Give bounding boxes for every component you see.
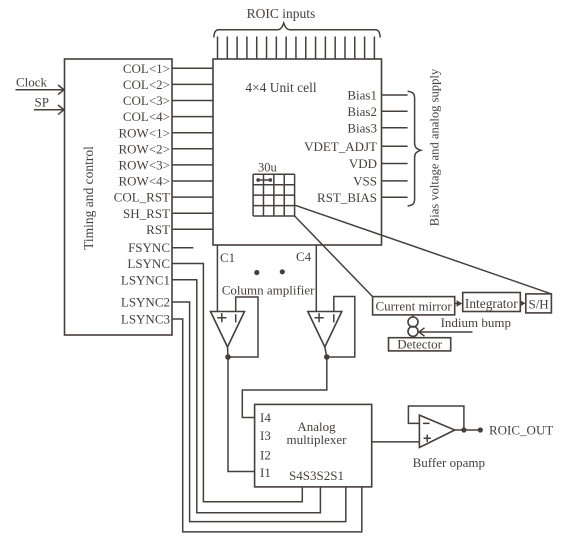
wire arrow indium bump: [419, 328, 473, 336]
svg-text:Buffer opamp: Buffer opamp: [413, 455, 485, 470]
svg-text:COL<4>: COL<4>: [123, 109, 170, 124]
svg-text:FSYNC: FSYNC: [128, 240, 170, 255]
node A2 output junction: [324, 354, 330, 360]
svg-text:Integrator: Integrator: [465, 296, 518, 311]
node buffer output junction: [461, 427, 466, 432]
wire VDET_ADJT: [382, 145, 408, 147]
wire FSYNC stub: [172, 247, 193, 249]
wire COL1: [172, 67, 213, 69]
wire arrow to integrator: [455, 300, 463, 306]
wire Bias2: [382, 110, 408, 112]
wire buffer output: [455, 429, 479, 431]
svg-text:Timing and control: Timing and control: [81, 146, 96, 250]
op-amp U2 buffer: [419, 415, 454, 447]
wire VDD: [382, 163, 408, 165]
svg-text:ROW<2>: ROW<2>: [119, 141, 171, 156]
svg-text:Indium bump: Indium bump: [441, 315, 511, 330]
svg-text:COL<1>: COL<1>: [123, 61, 170, 76]
svg-text:C4: C4: [296, 249, 312, 264]
svg-text:I3: I3: [260, 428, 271, 443]
wire ROW1: [172, 132, 213, 134]
svg-text:C1: C1: [220, 250, 235, 265]
sample and hold box: [526, 294, 552, 313]
svg-text:LSYNC3: LSYNC3: [121, 312, 170, 327]
svg-text:I2: I2: [260, 447, 271, 462]
wire RST: [172, 228, 213, 230]
wire arrow to S/H: [520, 300, 525, 306]
svg-text:SP: SP: [35, 95, 49, 110]
ellipsis dot 2: [280, 269, 285, 274]
svg-text:Current mirror: Current mirror: [376, 299, 453, 314]
svg-text:RST_BIAS: RST_BIAS: [317, 190, 377, 205]
wire ROW4: [172, 180, 213, 182]
svg-text:ROIC inputs: ROIC inputs: [247, 6, 316, 21]
wire A1 feedback: [230, 297, 258, 357]
wire A2 feedback: [327, 297, 355, 358]
svg-text:Bias1: Bias1: [347, 88, 377, 103]
svg-text:Clock: Clock: [16, 75, 48, 90]
wire LSYNC to S4: [172, 264, 302, 502]
wire LSYNC1 to S3: [172, 280, 320, 513]
wire column C4: [315, 245, 317, 312]
wire ROW3: [172, 164, 213, 166]
wire A1 output to I1: [228, 347, 255, 472]
wire LSYNC3 to S1: [172, 319, 362, 532]
svg-text:ROIC_OUT: ROIC_OUT: [489, 422, 553, 437]
wire column C1: [216, 245, 218, 312]
svg-text:COL_RST: COL_RST: [114, 190, 170, 205]
wire Bias1: [382, 94, 408, 96]
svg-text:COL<3>: COL<3>: [123, 93, 170, 108]
wire ROW2: [172, 148, 213, 150]
svg-text:multiplexer: multiplexer: [287, 432, 348, 447]
wire A2 output to I4: [242, 347, 326, 418]
node ROIC_OUT terminal: [478, 427, 483, 432]
svg-text:SH_RST: SH_RST: [123, 206, 170, 221]
ellipsis dot 1: [254, 270, 259, 275]
svg-text:Column amplifier: Column amplifier: [222, 283, 315, 298]
wire Bias3: [382, 127, 408, 129]
wire COL3: [172, 100, 213, 102]
svg-text:LSYNC2: LSYNC2: [121, 295, 170, 310]
svg-text:I4: I4: [260, 410, 271, 425]
svg-text:30u: 30u: [258, 161, 278, 175]
brace over ROIC inputs: [214, 23, 380, 38]
node A1 output junction: [225, 354, 231, 360]
svg-text:LSYNC: LSYNC: [127, 256, 170, 271]
svg-text:ROW<3>: ROW<3>: [119, 158, 171, 173]
wire COL2: [172, 83, 213, 85]
wire VSS: [382, 180, 408, 182]
svg-text:ROW<1>: ROW<1>: [119, 125, 171, 140]
pixel grid 4x4: [253, 174, 295, 216]
integrator box: [463, 293, 521, 312]
wire COL4: [172, 116, 213, 118]
svg-text:S/H: S/H: [528, 297, 548, 312]
wire buffer feedback: [408, 406, 464, 429]
svg-text:ROW<4>: ROW<4>: [119, 174, 171, 189]
zoom leader line to Current mirror: [295, 216, 373, 297]
svg-text:COL<2>: COL<2>: [123, 77, 170, 92]
analog multiplexer box: [255, 404, 372, 487]
op-amp A1 column amplifier 1: [211, 312, 245, 348]
dimension line 30u: [256, 178, 272, 182]
svg-text:Bias voltage and analog supply: Bias voltage and analog supply: [428, 68, 442, 226]
wire mux output: [372, 441, 420, 443]
svg-text:VSS: VSS: [353, 174, 377, 189]
op-amp A2 column amplifier 2: [308, 312, 342, 348]
svg-text:VDD: VDD: [349, 156, 377, 171]
svg-text:I1: I1: [260, 465, 271, 480]
brace bias group: [408, 91, 421, 206]
detector box: [389, 338, 451, 351]
wire SP input: [34, 105, 64, 115]
svg-text:S4S3S2S1: S4S3S2S1: [289, 468, 344, 483]
wire SH_RST: [172, 212, 213, 214]
4x4 unit cell box U1: [213, 59, 382, 245]
timing and control box: [65, 59, 173, 335]
svg-text:LSYNC1: LSYNC1: [121, 272, 170, 287]
wire COL_RST: [172, 196, 213, 198]
ROIC input pin ticks: [218, 37, 375, 60]
wire mirror to bump: [412, 315, 414, 317]
current mirror box: [373, 297, 455, 315]
wire LSYNC2 to S2: [172, 302, 346, 522]
zoom leader line to S/H: [295, 205, 552, 294]
svg-text:4×4 Unit cell: 4×4 Unit cell: [245, 80, 317, 95]
svg-text:Detector: Detector: [397, 337, 442, 352]
svg-text:VDET_ADJT: VDET_ADJT: [304, 139, 377, 154]
svg-text:RST: RST: [146, 222, 170, 237]
wire Clock input: [16, 85, 65, 95]
svg-text:Bias3: Bias3: [347, 120, 377, 135]
wire bump to detector: [412, 336, 414, 338]
indium bump circle 2: [408, 326, 418, 336]
wire RST_BIAS: [382, 196, 408, 198]
svg-text:Bias2: Bias2: [347, 104, 377, 119]
indium bump circle 1: [408, 317, 418, 327]
